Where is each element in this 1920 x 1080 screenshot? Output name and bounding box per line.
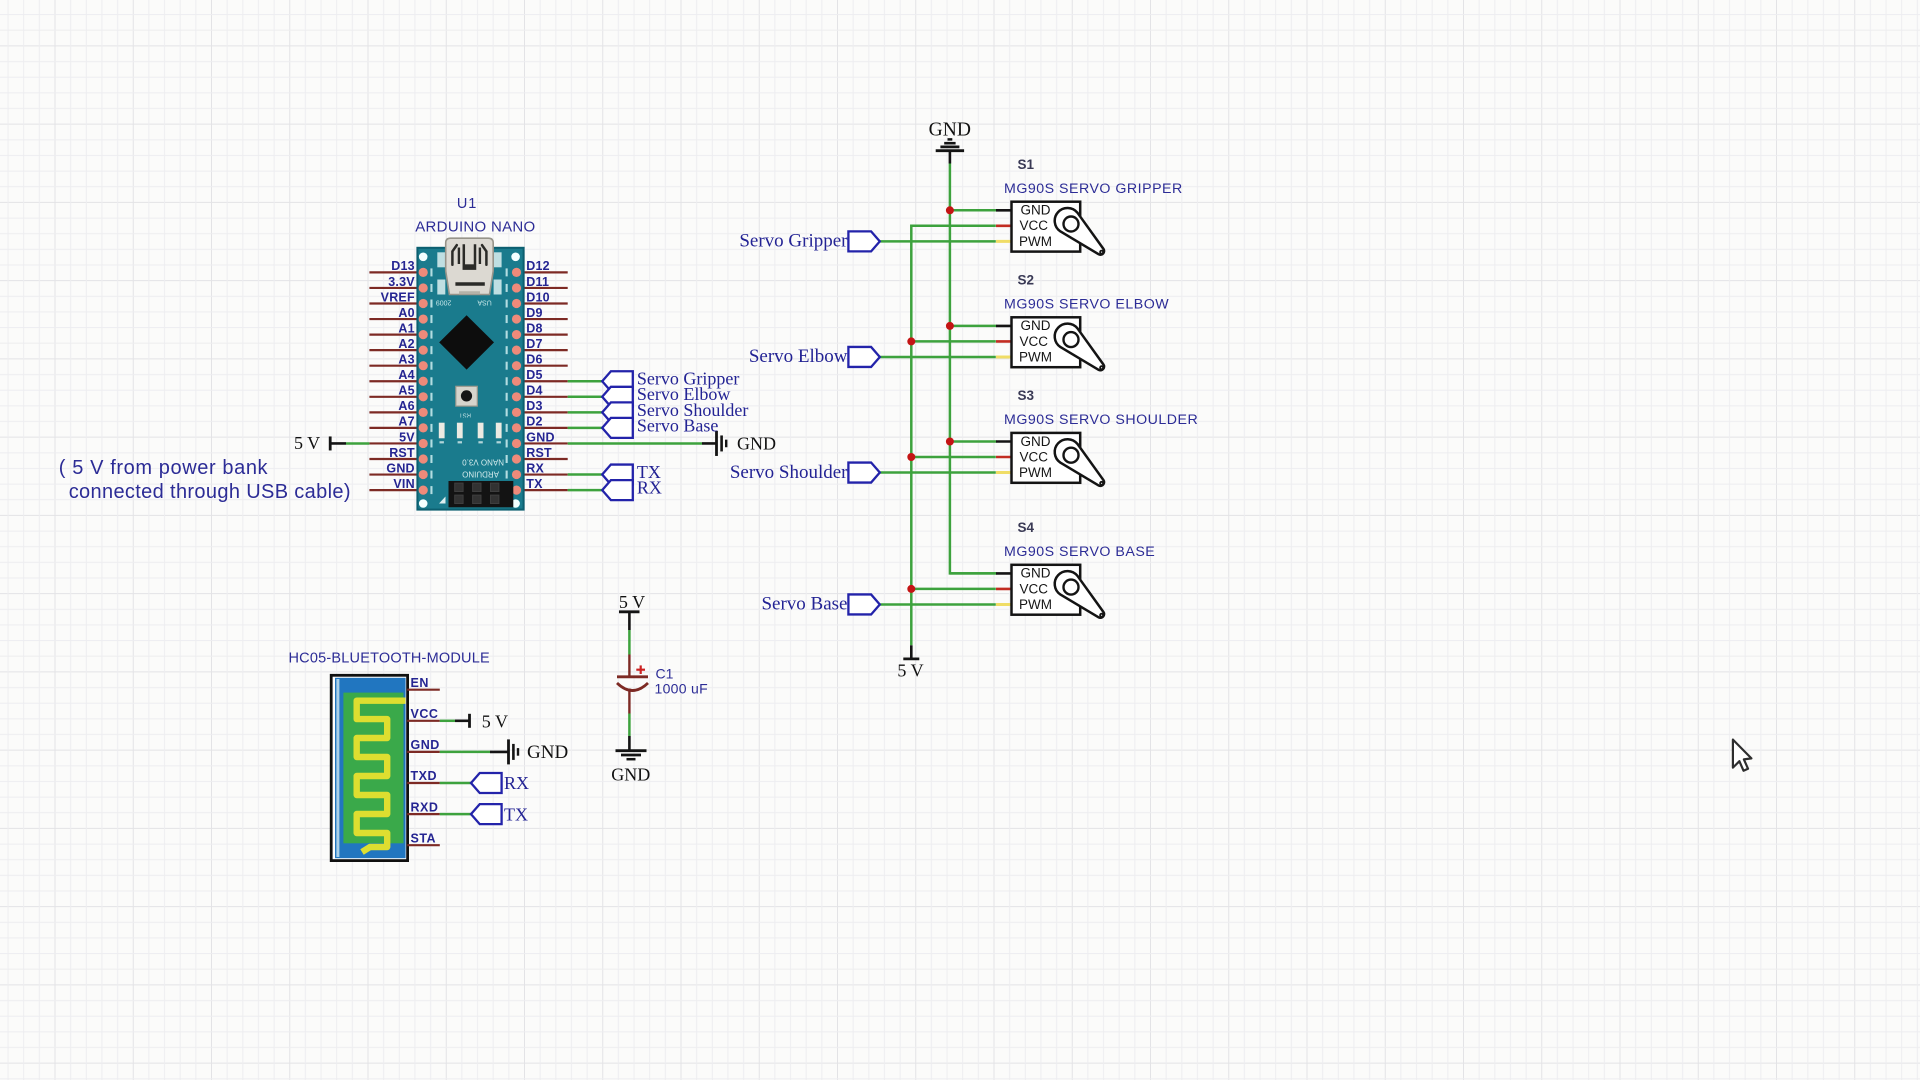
svg-text:TXD: TXD — [411, 769, 438, 783]
net flag Servo Elbow (servo side) — [749, 346, 880, 367]
svg-text:GND: GND — [411, 738, 440, 752]
net flag TX (HC05) — [471, 804, 528, 824]
wire 5V rail vertical — [911, 226, 996, 646]
wire HC05 GND to ground flag — [440, 751, 509, 754]
svg-text:GND: GND — [386, 461, 414, 475]
wire U1 D2 pin to net flag Servo Base — [568, 427, 603, 430]
wire 5V flag to C1 — [628, 612, 631, 655]
wire 5V rail to S3 VCC — [911, 456, 996, 459]
ground symbol (top, servo GND rail) — [929, 119, 971, 163]
svg-text:D12: D12 — [526, 259, 550, 273]
svg-text:D2: D2 — [526, 415, 542, 429]
net flag TX (at U1) — [602, 462, 661, 485]
svg-text:5 V: 5 V — [897, 661, 923, 681]
svg-text:A3: A3 — [398, 353, 414, 367]
svg-text:Servo Gripper: Servo Gripper — [739, 231, 848, 252]
svg-text:MG90S SERVO SHOULDER: MG90S SERVO SHOULDER — [1004, 412, 1198, 428]
wire HC05 RXD to net flag TX — [440, 813, 471, 816]
svg-text:GND: GND — [526, 430, 554, 444]
svg-text:TX: TX — [504, 804, 528, 824]
junction 5V rail / S3 — [907, 453, 915, 461]
svg-text:MG90S SERVO ELBOW: MG90S SERVO ELBOW — [1004, 297, 1169, 313]
svg-text:D11: D11 — [526, 275, 549, 289]
svg-text:RXD: RXD — [411, 800, 439, 814]
power flag 5V (above C1) — [619, 592, 645, 612]
mouse cursor — [1733, 740, 1752, 771]
svg-text:D7: D7 — [526, 337, 542, 351]
svg-text:Servo Base: Servo Base — [637, 415, 718, 435]
HC05 pin stubs — [407, 690, 440, 846]
wire 5V rail to S2 VCC — [911, 340, 996, 343]
svg-text:D6: D6 — [526, 353, 542, 367]
HC05 module name label — [289, 651, 490, 667]
svg-text:MG90S SERVO BASE: MG90S SERVO BASE — [1004, 544, 1155, 560]
wire GND rail to S2 GND — [950, 325, 997, 328]
svg-text:ARDUINO: ARDUINO — [462, 470, 499, 479]
power flag 5V (left of U1) — [294, 433, 330, 453]
wire GND rail to S3 GND — [950, 440, 997, 443]
net flag RX (HC05) — [471, 773, 529, 793]
svg-text:NANO V3.0: NANO V3.0 — [462, 458, 504, 467]
svg-text:ARDUINO NANO: ARDUINO NANO — [415, 219, 535, 236]
ground symbol (below C1) — [611, 751, 650, 785]
svg-text:GND: GND — [737, 433, 776, 453]
svg-text:U1: U1 — [457, 196, 477, 212]
svg-text:2009: 2009 — [436, 299, 452, 306]
svg-text:connected through USB cable): connected through USB cable) — [69, 481, 351, 503]
svg-text:RX: RX — [526, 461, 544, 475]
svg-text:RST: RST — [526, 446, 552, 460]
net flag Servo Shoulder (at U1) — [602, 400, 748, 423]
svg-text:A2: A2 — [398, 337, 414, 351]
wire net flag to S2 PWM — [880, 356, 996, 359]
svg-text:A5: A5 — [398, 384, 414, 398]
svg-text:A4: A4 — [398, 368, 414, 382]
U1 name label ARDUINO NANO — [415, 219, 535, 236]
wire net flag to S1 PWM — [880, 240, 996, 243]
svg-text:1000 uF: 1000 uF — [655, 681, 708, 697]
wire U1 TX pin to net flag RX — [568, 489, 603, 492]
svg-text:Servo Base: Servo Base — [761, 594, 847, 615]
svg-text:MG90S SERVO GRIPPER: MG90S SERVO GRIPPER — [1004, 181, 1183, 197]
net flag Servo Shoulder (servo side) — [730, 462, 880, 483]
svg-text:TX: TX — [526, 477, 543, 491]
svg-text:S3: S3 — [1018, 388, 1035, 403]
svg-text:D10: D10 — [526, 290, 550, 304]
ground symbol (right of U1) — [717, 431, 777, 456]
svg-text:USA: USA — [477, 299, 492, 306]
servo S3 MG90S SERVO SHOULDER — [996, 388, 1198, 486]
net flag Servo Elbow (at U1) — [602, 384, 730, 407]
svg-text:S1: S1 — [1018, 157, 1035, 172]
capacitor C1 — [617, 655, 648, 714]
U1 Arduino Nano board body — [417, 238, 523, 509]
junction GND rail / S1 — [946, 206, 954, 214]
wire 5V rail to S4 VCC — [911, 588, 996, 591]
net flag Servo Gripper (at U1) — [602, 369, 739, 392]
svg-text:EN: EN — [411, 676, 429, 690]
svg-text:D4: D4 — [526, 384, 542, 398]
svg-text:5V: 5V — [399, 430, 415, 444]
svg-text:RX: RX — [637, 478, 662, 498]
svg-text:( 5 V from power bank: ( 5 V from power bank — [59, 457, 269, 479]
svg-text:VIN: VIN — [393, 477, 414, 491]
svg-text:GND: GND — [611, 765, 650, 785]
svg-text:Servo Elbow: Servo Elbow — [749, 346, 848, 367]
HC05 bluetooth module body — [331, 675, 407, 860]
svg-text:RX: RX — [504, 773, 529, 793]
svg-text:GND: GND — [527, 742, 568, 763]
svg-text:D3: D3 — [526, 399, 542, 413]
power flag 5V (HC05) — [470, 711, 508, 731]
svg-text:A6: A6 — [398, 399, 414, 413]
svg-text:A1: A1 — [398, 321, 414, 335]
svg-text:5 V: 5 V — [619, 592, 645, 612]
wire HC05 VCC to 5V flag — [440, 720, 470, 723]
ground symbol (HC05) — [509, 739, 569, 764]
svg-text:VCC: VCC — [411, 707, 439, 721]
svg-text:D8: D8 — [526, 321, 542, 335]
net flag Servo Base (servo side) — [761, 594, 879, 615]
svg-text:STA: STA — [411, 831, 437, 845]
HC05 pin name labels — [411, 676, 440, 846]
svg-text:D13: D13 — [391, 259, 415, 273]
IC U1 designator label — [457, 196, 477, 212]
net flag Servo Gripper (servo side) — [739, 231, 879, 252]
wire U1 D5 pin to net flag Servo Gripper — [568, 380, 603, 383]
U1 left pin name labels — [381, 259, 416, 491]
wire net flag to S4 PWM — [880, 603, 996, 606]
C1 designator and value labels — [655, 666, 708, 697]
wire GND rail to S4 GND — [950, 572, 997, 575]
svg-text:RST: RST — [389, 446, 415, 460]
U1 left pin stubs (D13,3.3V,VREF,A0-A7,5V,RST,GND,VIN) — [369, 272, 418, 490]
junction GND rail / S3 — [946, 438, 954, 446]
wire U1 RX pin to net flag TX — [568, 473, 603, 476]
wire U1 D3 pin to net flag Servo Shoulder — [568, 411, 603, 414]
svg-text:5 V: 5 V — [482, 711, 508, 731]
servo S1 MG90S SERVO GRIPPER — [996, 157, 1183, 255]
svg-text:A0: A0 — [398, 306, 414, 320]
wire HC05 TXD to net flag RX — [440, 782, 471, 785]
svg-text:C1: C1 — [656, 666, 674, 682]
wire U1 D4 pin to net flag Servo Elbow — [568, 396, 603, 399]
svg-text:S4: S4 — [1018, 520, 1035, 535]
servo S2 MG90S SERVO ELBOW — [996, 273, 1169, 371]
wire U1 GND pin to ground flag — [568, 442, 717, 445]
svg-text:S2: S2 — [1018, 273, 1035, 288]
net flag Servo Base (at U1) — [602, 415, 718, 438]
svg-text:5 V: 5 V — [294, 433, 320, 453]
U1 right pin name labels — [526, 259, 554, 491]
power flag 5V (bottom of rail) — [897, 645, 923, 680]
wire C1 to ground — [628, 714, 631, 751]
wire GND rail vertical — [950, 164, 997, 574]
annotation text: 5V from power bank — [59, 457, 351, 503]
servo S4 MG90S SERVO BASE — [996, 520, 1155, 618]
junction 5V rail / S2 — [907, 337, 915, 345]
wire net flag to S3 PWM — [880, 471, 996, 474]
junction GND rail / S2 — [946, 322, 954, 330]
svg-text:VREF: VREF — [381, 290, 415, 304]
svg-text:GND: GND — [929, 119, 971, 140]
svg-text:D5: D5 — [526, 368, 542, 382]
svg-text:A7: A7 — [398, 415, 414, 429]
wire GND rail to S1 GND — [950, 209, 997, 212]
svg-text:Servo Shoulder: Servo Shoulder — [730, 462, 848, 483]
svg-text:3.3V: 3.3V — [388, 275, 415, 289]
net flag RX (at U1) — [602, 478, 662, 501]
junction 5V rail / S4 — [907, 585, 915, 593]
svg-text:RST: RST — [459, 412, 471, 418]
U1 right pin stubs (D12-D2,GND,RST,RX,TX) — [523, 272, 568, 490]
svg-text:HC05-BLUETOOTH-MODULE: HC05-BLUETOOTH-MODULE — [289, 651, 490, 667]
wire 5V flag to U1 pin 5V — [330, 442, 369, 445]
svg-text:D9: D9 — [526, 306, 542, 320]
